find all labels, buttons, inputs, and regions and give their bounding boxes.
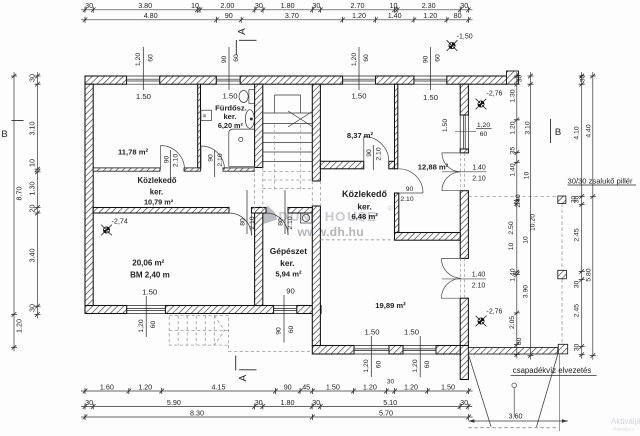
window W4 north 90 xyxy=(414,76,447,84)
svg-text:30: 30 xyxy=(580,75,587,83)
svg-text:80: 80 xyxy=(240,218,247,226)
svg-text:3.10: 3.10 xyxy=(525,121,532,134)
svg-text:B: B xyxy=(555,127,561,138)
wall room8 south seg2 xyxy=(389,161,395,169)
wall room12 south xyxy=(395,233,461,241)
svg-text:90: 90 xyxy=(276,327,283,335)
washer gep xyxy=(300,213,312,223)
wall corridor south seg3 xyxy=(288,208,312,214)
svg-text:30: 30 xyxy=(312,398,320,407)
svg-text:45: 45 xyxy=(302,382,310,391)
svg-text:2.30: 2.30 xyxy=(422,1,436,10)
svg-text:2.10: 2.10 xyxy=(173,154,180,167)
svg-text:1.20: 1.20 xyxy=(363,382,377,391)
svg-text:30: 30 xyxy=(312,1,320,10)
level marker -1,50 xyxy=(447,40,458,51)
svg-text:1.40: 1.40 xyxy=(388,11,402,20)
door bath label xyxy=(214,150,216,177)
window W3 label xyxy=(358,47,360,90)
svg-text:1,20: 1,20 xyxy=(351,53,358,66)
dim 3.60 xyxy=(468,420,568,422)
wall divider gep/room19 xyxy=(312,206,320,346)
door room12 west 90/2.10 xyxy=(399,169,423,193)
door room20 80/2.10 xyxy=(229,213,252,236)
svg-text:ker.: ker. xyxy=(357,202,371,212)
svg-text:ker.: ker. xyxy=(223,112,236,121)
wall south room19 seg3 xyxy=(436,346,460,355)
svg-text:3.40: 3.40 xyxy=(28,249,37,263)
window S room20 label xyxy=(145,296,147,337)
svg-text:30/30 zsalukő pillér: 30/30 zsalukő pillér xyxy=(568,177,633,186)
wall exterior north seg3 xyxy=(240,76,342,84)
lightwell ramp slants xyxy=(468,355,557,427)
svg-text:10: 10 xyxy=(523,236,530,244)
svg-text:2.10: 2.10 xyxy=(217,153,224,166)
svg-text:10: 10 xyxy=(28,159,37,167)
window S room19b label xyxy=(419,336,421,377)
door gep 80/2.10 xyxy=(266,213,288,235)
svg-text:1.20: 1.20 xyxy=(404,382,418,391)
wall exterior east seg1 xyxy=(460,84,468,115)
svg-text:Fürdősz.: Fürdősz. xyxy=(215,103,247,112)
dimension row bottom B xyxy=(81,406,472,408)
svg-text:80: 80 xyxy=(278,218,285,226)
svg-text:30: 30 xyxy=(516,337,523,345)
wall exterior east seg5 stair side xyxy=(460,346,468,380)
wall south room19 seg1 xyxy=(312,346,354,355)
door room8 90/2.10 xyxy=(364,137,389,162)
svg-text:30: 30 xyxy=(574,281,581,289)
svg-text:1,20: 1,20 xyxy=(135,53,142,66)
svg-text:1.20: 1.20 xyxy=(15,319,24,333)
window W1 label xyxy=(142,47,144,90)
svg-text:1,20: 1,20 xyxy=(412,359,419,372)
svg-text:60: 60 xyxy=(233,54,240,62)
svg-text:60: 60 xyxy=(480,131,488,138)
svg-text:Közlekedő: Közlekedő xyxy=(342,189,388,199)
svg-text:1.40: 1.40 xyxy=(472,272,486,279)
shower tray xyxy=(229,129,255,166)
svg-text:19,89 m²: 19,89 m² xyxy=(375,301,406,310)
wall exterior north seg5 xyxy=(447,76,507,84)
wall south room19 seg2 xyxy=(389,346,403,355)
door room11 label xyxy=(169,150,171,177)
wall exterior north seg4 xyxy=(376,76,414,84)
door room8 label xyxy=(372,145,374,170)
svg-text:www.dh.hu: www.dh.hu xyxy=(297,225,364,239)
svg-text:1.30: 1.30 xyxy=(28,182,37,196)
svg-text:A: A xyxy=(237,28,248,35)
svg-text:90: 90 xyxy=(207,154,214,162)
svg-text:90: 90 xyxy=(225,11,233,20)
svg-text:90: 90 xyxy=(422,56,429,64)
svg-text:Aktiválja a: Aktiválja a xyxy=(612,427,634,433)
level marker -2,76 NE xyxy=(476,99,487,110)
svg-text:20,06 m²: 20,06 m² xyxy=(132,259,164,268)
svg-text:1.50: 1.50 xyxy=(142,288,157,297)
wall thin corridor north seg1 xyxy=(93,168,160,171)
svg-text:2.10: 2.10 xyxy=(249,216,256,229)
svg-text:1.50: 1.50 xyxy=(404,328,419,337)
svg-text:csapadékvíz elvezetés: csapadékvíz elvezetés xyxy=(513,366,592,375)
svg-text:2.10: 2.10 xyxy=(375,147,382,160)
svg-text:3.80: 3.80 xyxy=(138,1,152,10)
svg-text:1.60: 1.60 xyxy=(100,382,114,391)
wall thin bath south seg xyxy=(223,168,255,171)
door bath 90/2.10 xyxy=(201,146,225,170)
stairs interior flight xyxy=(263,95,313,162)
svg-text:3.90: 3.90 xyxy=(523,285,530,298)
svg-text:60: 60 xyxy=(375,361,382,369)
dimension col left outer xyxy=(13,72,15,351)
door jamb dashes east wall xyxy=(461,153,465,298)
svg-text:-2,74: -2,74 xyxy=(112,217,128,226)
pillar 30/30 no.1 xyxy=(558,196,566,204)
svg-text:Közlekedő: Közlekedő xyxy=(138,176,177,185)
wall divider room20/gep xyxy=(255,213,263,306)
svg-text:1.50: 1.50 xyxy=(352,92,367,101)
svg-text:6,20 m²: 6,20 m² xyxy=(218,121,244,130)
window S room19 a xyxy=(354,346,389,355)
svg-text:1.40: 1.40 xyxy=(510,268,517,281)
retaining wall lightwell xyxy=(468,348,557,355)
svg-text:60: 60 xyxy=(424,361,431,369)
dimension row top 1 xyxy=(81,9,472,11)
dimension col right 1 xyxy=(516,72,518,359)
svg-text:30: 30 xyxy=(85,1,93,10)
wall exterior east seg4 xyxy=(460,298,468,345)
wall exterior south-west seg2 xyxy=(165,306,273,314)
pillar 30/30 no.2 xyxy=(558,270,567,279)
dimension row bottom C xyxy=(81,416,473,418)
dashed line to pillar row xyxy=(468,195,557,197)
svg-text:90: 90 xyxy=(284,382,292,391)
svg-text:1.30: 1.30 xyxy=(510,89,517,102)
svg-text:1.50: 1.50 xyxy=(365,328,380,337)
door east room12 double 1.40/2.10 xyxy=(442,153,461,191)
svg-text:3.10: 3.10 xyxy=(28,122,37,136)
svg-text:4.80: 4.80 xyxy=(144,11,158,20)
window W1 north 1.50 xyxy=(127,76,160,84)
svg-text:8.70: 8.70 xyxy=(15,187,24,201)
svg-text:30: 30 xyxy=(517,75,524,83)
svg-text:3.60: 3.60 xyxy=(509,412,523,421)
svg-text:20: 20 xyxy=(28,205,37,213)
svg-text:90: 90 xyxy=(163,156,170,164)
svg-text:2.10: 2.10 xyxy=(472,175,486,182)
svg-text:90: 90 xyxy=(406,186,414,193)
dimension col right 3 xyxy=(581,72,583,359)
svg-text:5.80: 5.80 xyxy=(586,268,593,281)
pillar 30/30 no.3 xyxy=(558,344,568,354)
svg-text:2.50: 2.50 xyxy=(508,221,515,234)
svg-text:90: 90 xyxy=(286,287,295,296)
svg-text:2.05: 2.05 xyxy=(509,316,516,329)
wall exterior east seg2 xyxy=(460,149,468,153)
door gep label xyxy=(284,190,286,234)
window S gep label xyxy=(283,295,285,343)
svg-text:60: 60 xyxy=(435,54,442,62)
svg-text:ker.: ker. xyxy=(280,258,294,268)
level marker -2,74 xyxy=(101,225,112,236)
svg-text:1.20: 1.20 xyxy=(510,121,517,134)
wall exterior west xyxy=(85,84,93,313)
wall room8 south seg1 xyxy=(320,161,363,169)
svg-text:-2,76: -2,76 xyxy=(487,91,503,98)
svg-text:5.10: 5.10 xyxy=(383,398,397,407)
svg-text:10: 10 xyxy=(508,243,515,251)
svg-text:1.20: 1.20 xyxy=(138,382,152,391)
wall stair west xyxy=(255,84,263,167)
svg-text:®: ® xyxy=(388,205,393,213)
svg-text:5.70: 5.70 xyxy=(379,408,393,417)
svg-text:B: B xyxy=(1,129,7,140)
svg-text:30: 30 xyxy=(387,379,395,386)
svg-text:8.30: 8.30 xyxy=(190,408,204,417)
svg-text:30: 30 xyxy=(28,74,37,82)
toilet xyxy=(239,90,254,104)
dimension col left inner xyxy=(37,72,39,318)
wall exterior south-west seg1 xyxy=(85,306,127,314)
level marker -2,76 SE xyxy=(476,316,487,327)
svg-text:2.70: 2.70 xyxy=(351,1,365,10)
wall stair east xyxy=(312,84,320,181)
svg-text:1.80: 1.80 xyxy=(281,398,295,407)
window S room19 b xyxy=(403,346,436,355)
svg-text:30: 30 xyxy=(574,344,581,352)
svg-text:10.20: 10.20 xyxy=(530,214,537,231)
svg-text:90: 90 xyxy=(366,149,373,157)
dimension row top 2 xyxy=(81,19,473,21)
wall exterior south-west seg3 xyxy=(297,306,321,314)
svg-text:2.10: 2.10 xyxy=(287,216,294,229)
svg-text:90: 90 xyxy=(221,56,228,64)
svg-text:1.20: 1.20 xyxy=(423,11,437,20)
svg-text:30: 30 xyxy=(28,304,37,312)
svg-text:3.70: 3.70 xyxy=(285,11,299,20)
svg-text:1.50: 1.50 xyxy=(326,382,340,391)
svg-text:BM 2,40 m: BM 2,40 m xyxy=(130,271,170,280)
svg-text:30: 30 xyxy=(85,398,93,407)
svg-text:30: 30 xyxy=(574,196,581,204)
window S room19a label xyxy=(370,336,372,377)
svg-text:1,20: 1,20 xyxy=(138,319,145,332)
door east room19 double 1.40/2.10 xyxy=(441,258,460,298)
wall exterior north seg2 xyxy=(160,76,217,84)
svg-text:1.50: 1.50 xyxy=(442,119,449,132)
watermark Duna House logo xyxy=(251,200,277,226)
wall exterior east seg3 xyxy=(460,191,468,259)
svg-text:10,79 m²: 10,79 m² xyxy=(144,197,174,206)
door room11 90/2.10 xyxy=(161,146,185,170)
svg-text:60: 60 xyxy=(288,326,295,334)
svg-text:4.15: 4.15 xyxy=(212,382,226,391)
svg-text:A: A xyxy=(238,375,249,382)
svg-text:35: 35 xyxy=(510,147,517,155)
svg-text:10: 10 xyxy=(390,1,398,10)
svg-text:60: 60 xyxy=(148,54,155,62)
svg-text:-1,50: -1,50 xyxy=(457,34,473,41)
svg-text:Aktiváljá: Aktiváljá xyxy=(611,417,640,426)
svg-text:1,20: 1,20 xyxy=(363,359,370,372)
window W4 label xyxy=(430,47,432,90)
svg-text:2.00: 2.00 xyxy=(220,1,234,10)
svg-text:30: 30 xyxy=(255,398,263,407)
stair wall dashed continuation xyxy=(255,168,321,214)
pillar wall-end NE xyxy=(507,71,519,84)
svg-text:2.40: 2.40 xyxy=(515,194,522,207)
wall exterior north seg1 xyxy=(85,76,127,84)
wall thin hall6/room12 b xyxy=(395,193,399,233)
sink xyxy=(245,110,254,129)
wall thin room11/bath xyxy=(198,84,201,168)
svg-text:10: 10 xyxy=(524,172,531,180)
window S room20 1.20/60 xyxy=(127,306,166,314)
svg-text:2.45: 2.45 xyxy=(574,304,581,317)
window W2 label xyxy=(228,47,230,90)
svg-text:30: 30 xyxy=(460,398,468,407)
washbasin bath west xyxy=(201,110,212,120)
svg-text:5,94 m²: 5,94 m² xyxy=(275,269,302,278)
wall corridor south seg1 xyxy=(93,208,229,214)
dimension row bottom A xyxy=(81,390,473,392)
svg-text:8,37 m²: 8,37 m² xyxy=(347,131,374,140)
svg-text:30: 30 xyxy=(460,1,468,10)
svg-text:12,88 m²: 12,88 m² xyxy=(418,163,449,172)
svg-text:1.50: 1.50 xyxy=(223,91,238,100)
svg-text:1,20: 1,20 xyxy=(477,122,490,129)
svg-text:80: 80 xyxy=(454,11,462,20)
svg-text:60: 60 xyxy=(150,321,157,329)
svg-text:2.10: 2.10 xyxy=(472,283,486,290)
dimension col right 4 xyxy=(592,72,594,360)
dashed boundary hall6/room19 xyxy=(320,239,394,241)
svg-text:2.45: 2.45 xyxy=(574,228,581,241)
svg-text:4.10: 4.10 xyxy=(574,126,581,139)
ext line pillar3 down xyxy=(559,355,561,432)
svg-text:10: 10 xyxy=(191,1,199,10)
window E room12 1.20/60 xyxy=(460,115,468,149)
svg-text:4.40: 4.40 xyxy=(586,124,593,137)
wall thin room8/room12 xyxy=(395,84,398,169)
svg-text:Gépészet: Gépészet xyxy=(270,246,307,256)
window W3 north 1.20 xyxy=(343,76,376,84)
svg-text:6,48 m²: 6,48 m² xyxy=(351,212,378,221)
svg-text:11,78 m²: 11,78 m² xyxy=(118,148,148,157)
svg-text:1.40: 1.40 xyxy=(510,163,517,176)
svg-text:1.50: 1.50 xyxy=(441,382,455,391)
svg-text:1.20: 1.20 xyxy=(352,11,366,20)
svg-text:1.50: 1.50 xyxy=(136,92,151,101)
wall corridor south seg2 xyxy=(252,208,267,214)
svg-text:60: 60 xyxy=(363,54,370,62)
window W2 north bath 90 xyxy=(216,76,240,84)
window S gep 90/60 xyxy=(274,306,297,314)
svg-text:ker.: ker. xyxy=(150,187,163,196)
outside stairs dashed xyxy=(169,316,312,352)
svg-text:1.40: 1.40 xyxy=(472,165,486,172)
dimension col right 2 xyxy=(530,72,532,360)
svg-text:-2,76: -2,76 xyxy=(487,309,503,316)
svg-text:1.50: 1.50 xyxy=(423,93,438,102)
door room20 label xyxy=(246,190,248,234)
dashed pillar axis vertical xyxy=(561,204,563,345)
drain circle symbol xyxy=(512,383,517,388)
svg-text:30: 30 xyxy=(255,1,263,10)
svg-text:5.90: 5.90 xyxy=(167,398,181,407)
wall thin corridor north seg2 xyxy=(184,168,201,171)
lightwell bottom dashed xyxy=(468,427,557,429)
svg-text:2.10: 2.10 xyxy=(400,196,413,203)
svg-text:1.80: 1.80 xyxy=(281,1,295,10)
stairs dashed lower steps xyxy=(263,125,313,191)
